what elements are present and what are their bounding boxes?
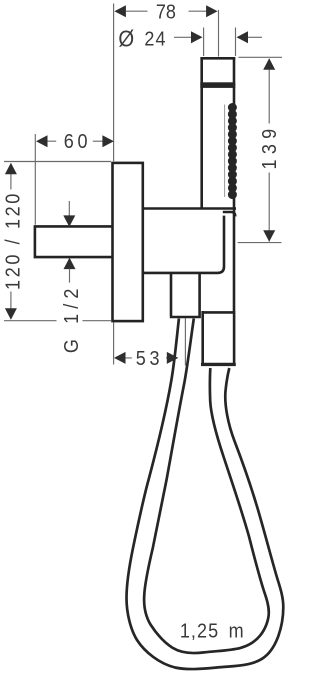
holder front face	[143, 216, 224, 273]
dimension Ø24 leader left	[174, 36, 191, 38]
holder clip lip	[223, 212, 236, 216]
knurl dots	[228, 103, 237, 199]
svg-text:139: 139	[259, 124, 281, 170]
extension lines Ø24	[204, 28, 236, 57]
hand shower band	[200, 82, 235, 88]
hose outer line	[127, 319, 284, 670]
wall plate (side view)	[113, 163, 143, 321]
hand shower left edge	[200, 57, 203, 207]
extension line pipe end	[34, 134, 36, 225]
hand shower right edge	[233, 57, 236, 311]
svg-text:24: 24	[144, 29, 166, 51]
svg-text:Ø: Ø	[118, 25, 134, 52]
G 1/2 leader lower	[64, 258, 76, 270]
supply pipe stub	[35, 226, 112, 257]
holder body	[143, 207, 236, 210]
dimension Ø24 leader right	[237, 31, 249, 43]
extension line wall face	[113, 4, 115, 162]
dimension 78 line	[126, 10, 207, 12]
hose inner line	[144, 319, 269, 654]
knurl inner line	[224, 105, 226, 198]
dimension 120/120 line	[10, 164, 12, 319]
dimension 139 line	[268, 59, 270, 242]
extension line 53 left	[113, 323, 115, 365]
hose nut of hand shower	[201, 311, 235, 363]
extension lines 120/120	[4, 162, 111, 321]
hand shower cap top	[200, 57, 235, 60]
G 1/2 leader upper	[68, 201, 70, 216]
svg-text:60: 60	[64, 131, 92, 153]
dimension 60 line	[47, 140, 103, 142]
extension line shower centre	[218, 10, 220, 57]
svg-text:G 1/2: G 1/2	[61, 283, 83, 353]
svg-text:53: 53	[136, 348, 164, 370]
svg-text:m: m	[229, 621, 244, 643]
dimension 53 line	[125, 357, 168, 359]
dimension 78 arrows	[114, 5, 126, 17]
wall outlet hose connector	[170, 274, 201, 317]
svg-text:78: 78	[156, 2, 176, 24]
extension line 53 right (hose axis)	[184, 318, 186, 366]
extension lines 139	[238, 57, 282, 242]
svg-text:120 / 120: 120 / 120	[2, 191, 24, 290]
svg-text:1,25: 1,25	[180, 621, 219, 643]
